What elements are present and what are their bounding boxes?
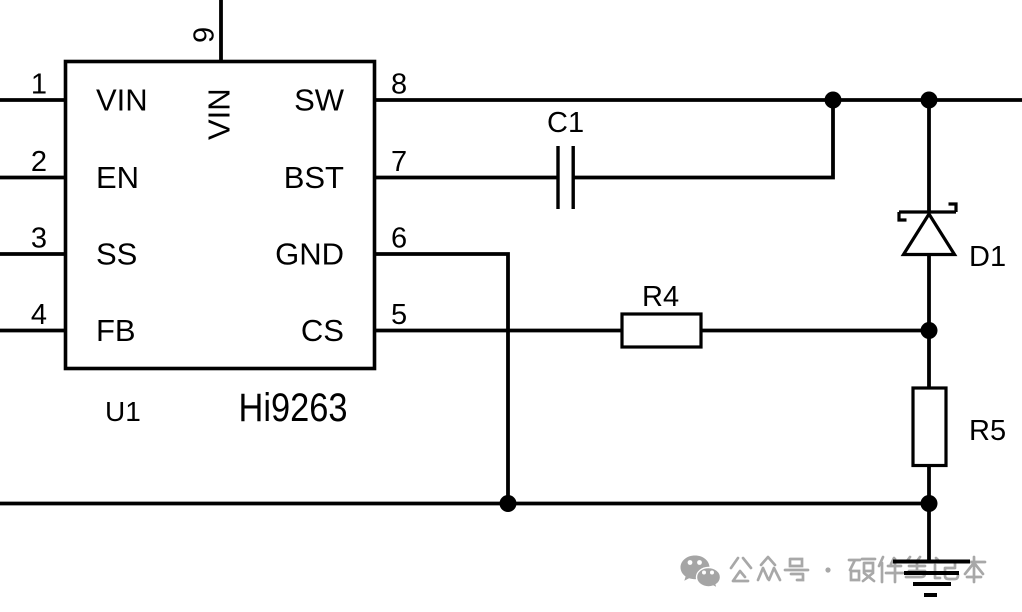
- 众: [758, 557, 780, 580]
- svg-text:3: 3: [31, 223, 47, 255]
- pin number 8: [391, 69, 407, 101]
- 记: [935, 558, 958, 579]
- wire pin1: [0, 98, 66, 102]
- svg-text:6: 6: [391, 223, 407, 255]
- label R4: [642, 281, 679, 313]
- pin number 4: [31, 299, 47, 331]
- label C1: [547, 107, 584, 139]
- wire pin2: [0, 176, 66, 180]
- wire pin6 GND down: [375, 254, 509, 504]
- svg-text:1: 1: [31, 69, 47, 101]
- wire pin4: [0, 329, 66, 333]
- pin name CS (rotated VIN top pin): [301, 313, 344, 348]
- pin name EN: [96, 160, 139, 195]
- svg-text:GND: GND: [275, 237, 344, 272]
- svg-text:VIN: VIN: [202, 88, 237, 140]
- pin number 6: [391, 223, 407, 255]
- ground: [893, 562, 970, 596]
- svg-text:SS: SS: [96, 237, 137, 272]
- 硬: [849, 559, 875, 581]
- pin number 5: [391, 299, 407, 331]
- wire bottom net: [0, 502, 929, 506]
- resistor R4: [622, 314, 701, 347]
- wire R5 to ground node: [927, 465, 931, 562]
- resistor R5: [913, 388, 946, 466]
- svg-text:U1: U1: [105, 396, 141, 427]
- wire pin9: [219, 0, 223, 62]
- wire D1 anode to R5: [927, 253, 931, 389]
- pin name GND: [275, 237, 344, 272]
- watermark text 公众号·硬件笔记本 (hand-drawn strokes): [731, 557, 985, 582]
- svg-text:VIN: VIN: [96, 83, 148, 118]
- pin number 3: [31, 223, 47, 255]
- svg-text:Hi9263: Hi9263: [239, 386, 348, 430]
- svg-text:4: 4: [31, 299, 47, 331]
- node GND-bottom junction: [500, 495, 517, 512]
- svg-text:C1: C1: [547, 107, 584, 139]
- node CS-D1-R5 junction: [921, 322, 938, 339]
- svg-text:SW: SW: [294, 83, 345, 118]
- pin name SS: [96, 237, 137, 272]
- svg-text:D1: D1: [969, 241, 1006, 273]
- diode D1 (schottky): [899, 204, 956, 255]
- 公: [731, 558, 751, 581]
- pin number 2: [31, 146, 47, 178]
- 号: [785, 559, 808, 580]
- pin name VIN: [96, 83, 148, 118]
- 件: [879, 557, 903, 582]
- pin number 9 (rotated): [189, 27, 221, 43]
- svg-text:2: 2: [31, 146, 47, 178]
- op-amp U1 (IC body Hi9263): [66, 62, 375, 369]
- svg-text:8: 8: [391, 69, 407, 101]
- pin name FB: [96, 313, 136, 348]
- svg-text:FB: FB: [96, 313, 136, 348]
- svg-text:9: 9: [189, 27, 221, 43]
- svg-text:R5: R5: [969, 415, 1006, 447]
- label D1: [969, 241, 1006, 273]
- svg-text:7: 7: [391, 146, 407, 178]
- wire pin8 SW net: [375, 98, 1022, 102]
- 笔: [906, 557, 926, 577]
- wire R4 to node: [700, 329, 929, 333]
- node SW-BST junction: [825, 92, 842, 109]
- wire C1 to SW net: [575, 100, 834, 178]
- watermark wechat icon: [681, 556, 721, 589]
- svg-text:BST: BST: [284, 160, 344, 195]
- wire pin5 CS to R4: [375, 329, 624, 333]
- label Hi9263: [239, 386, 348, 430]
- pin name SW: [294, 83, 345, 118]
- node R5-bottom junction: [921, 495, 938, 512]
- pin number 7: [391, 146, 407, 178]
- wire pin7 BST to C1: [375, 176, 558, 180]
- capacitor C1: [558, 146, 573, 209]
- svg-text:EN: EN: [96, 160, 139, 195]
- node SW-D1 junction: [921, 92, 938, 109]
- label U1: [105, 396, 141, 427]
- pin number 1: [31, 69, 47, 101]
- pin name VIN rotated (pin 9): [202, 88, 237, 140]
- ·: [825, 567, 830, 572]
- svg-text:R4: R4: [642, 281, 679, 313]
- svg-text:5: 5: [391, 299, 407, 331]
- label R5: [969, 415, 1006, 447]
- svg-text:CS: CS: [301, 313, 344, 348]
- wire pin3: [0, 252, 66, 256]
- wire D1 branch vertical: [927, 100, 931, 212]
- 本: [963, 557, 985, 582]
- pin name BST: [284, 160, 344, 195]
